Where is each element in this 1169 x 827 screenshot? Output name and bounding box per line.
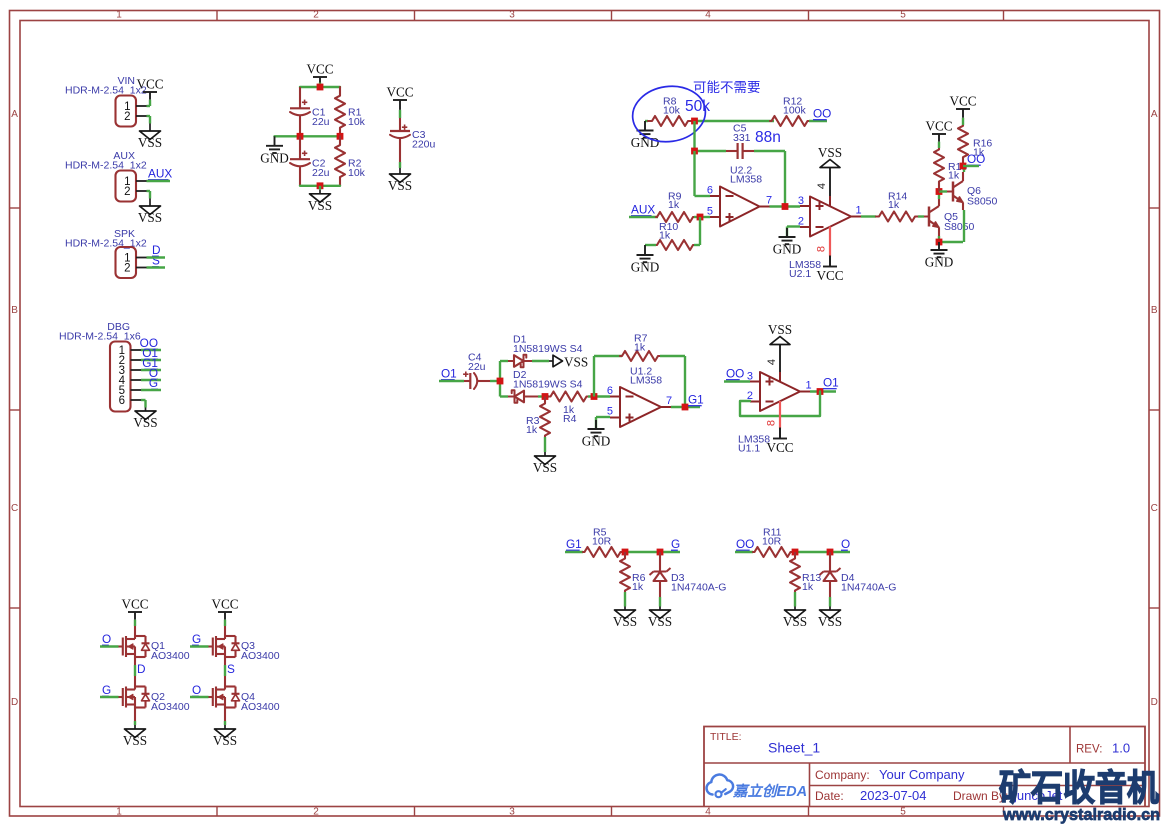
power VCC below U2.1 — [816, 256, 843, 284]
power VCC at VIN pin 1 — [136, 77, 163, 107]
wire U1.2 pin 5 to GND — [596, 417, 610, 429]
title block — [704, 727, 1145, 807]
power VSS above U2.1 — [818, 145, 842, 168]
power VCC above C1 R1 rail — [306, 62, 333, 88]
wire Q5 collector — [938, 192, 940, 200]
wire O to Q1 gate — [100, 645, 119, 647]
junction D3 top — [657, 549, 664, 556]
power VCC above R15 — [925, 119, 952, 149]
svg-text:AO3400: AO3400 — [151, 701, 190, 713]
svg-text:22u: 22u — [468, 361, 486, 373]
net label O — [192, 683, 201, 697]
power VSS at VIN pin 2 — [138, 116, 162, 150]
svg-text:G: G — [192, 632, 201, 646]
svg-text:Your Company: Your Company — [879, 767, 965, 782]
svg-text:5: 5 — [900, 10, 906, 21]
wire Q5 collector to Q6 base — [939, 190, 953, 192]
connector DBG (HDR-M-2.54_1x6) — [59, 321, 141, 412]
net label G — [671, 537, 680, 551]
net label AUX at R9 — [631, 203, 655, 217]
capacitor C2 22u — [290, 136, 330, 186]
svg-text:TITLE:: TITLE: — [710, 731, 742, 743]
svg-text:G1: G1 — [688, 393, 704, 407]
svg-text:4: 4 — [705, 10, 711, 21]
svg-text:1: 1 — [856, 205, 862, 217]
op-amp U1.1 LM358 — [738, 371, 812, 455]
svg-text:GND: GND — [631, 135, 660, 150]
resistor R8 10k — [648, 96, 692, 127]
wire C4 to diode branch — [490, 361, 500, 397]
connector SPK (HDR-M-2.54_1x2) — [65, 228, 147, 278]
svg-text:HDR-M-2.54_1x2: HDR-M-2.54_1x2 — [65, 160, 147, 172]
svg-text:1N4740A-G: 1N4740A-G — [671, 582, 726, 594]
power VSS at AUX pin 2 — [138, 191, 162, 225]
power VSS below C2 R2 rail — [308, 186, 332, 213]
wire DBG pin 3 — [141, 369, 161, 371]
svg-text:1k: 1k — [668, 199, 680, 211]
svg-text:VSS: VSS — [613, 614, 637, 629]
svg-text:4: 4 — [705, 807, 711, 818]
annotation text 可能不需要 — [693, 80, 761, 95]
svg-text:VSS: VSS — [818, 614, 842, 629]
power VSS below D4 — [818, 603, 842, 629]
wire O to Q4 gate — [190, 696, 209, 698]
svg-text:1N4740A-G: 1N4740A-G — [841, 582, 896, 594]
svg-text:S8050: S8050 — [944, 221, 975, 233]
net label G at DBG pin 5 — [149, 376, 158, 390]
wire VCC top rail — [300, 86, 340, 88]
svg-text:A: A — [1151, 109, 1158, 120]
svg-text:A: A — [11, 109, 18, 120]
wire Q6 collector — [963, 166, 965, 172]
svg-text:O: O — [102, 632, 111, 646]
svg-text:O: O — [192, 683, 201, 697]
svg-text:22u: 22u — [312, 167, 330, 179]
wire feedback up to R7 — [594, 356, 622, 397]
svg-text:可能不需要: 可能不需要 — [693, 80, 761, 95]
junction U1.1 output — [817, 388, 824, 395]
junction emitters — [936, 239, 943, 246]
svg-text:C: C — [11, 503, 18, 514]
svg-text:1k: 1k — [802, 581, 814, 593]
net label O1 at DBG pin 2 — [142, 346, 158, 360]
svg-text:VSS: VSS — [133, 415, 157, 430]
svg-text:G: G — [149, 376, 158, 390]
power VCC above R16 — [949, 94, 976, 126]
wire OO stub — [963, 165, 979, 167]
capacitor C5 331 / 88n — [726, 123, 754, 160]
svg-text:1N5819WS S4: 1N5819WS S4 — [513, 343, 583, 355]
power VSS above U1.1 — [768, 322, 792, 345]
svg-text:6: 6 — [607, 385, 613, 397]
ground GND left of R8 — [631, 121, 660, 150]
svg-text:7: 7 — [666, 395, 672, 407]
transistor Q6 S8050 — [953, 172, 998, 210]
wire G1 to R5 — [565, 551, 583, 553]
wire C5 branch left — [695, 150, 727, 152]
svg-text:1k: 1k — [526, 424, 538, 436]
wire R8 branch down to U2.2 pin 6 — [695, 151, 711, 196]
svg-text:GND: GND — [582, 434, 611, 449]
svg-text:S: S — [152, 254, 160, 268]
net label G1 at DBG pin 3 — [142, 356, 158, 370]
wire Q4 source down — [224, 708, 226, 722]
diode D2 1N5819WS — [500, 369, 583, 403]
power VCC above Q3 — [211, 597, 238, 627]
svg-text:VSS: VSS — [564, 355, 588, 370]
svg-text:3: 3 — [509, 807, 515, 818]
svg-text:50k: 50k — [685, 98, 710, 115]
svg-text:2: 2 — [124, 263, 130, 275]
wire VCC to Q3 drain — [224, 626, 226, 636]
capacitor C1 22u — [290, 87, 330, 136]
svg-text:www.crystalradio.cn: www.crystalradio.cn — [1002, 805, 1160, 824]
svg-text:REV:: REV: — [1076, 744, 1102, 756]
junction D4 top — [827, 549, 834, 556]
wire D3 to VSS — [659, 597, 661, 603]
svg-text:嘉立创EDA: 嘉立创EDA — [732, 783, 807, 800]
svg-text:LM358: LM358 — [630, 375, 662, 387]
wire R8 to R12 — [692, 120, 774, 122]
svg-text:VSS: VSS — [138, 210, 162, 225]
connector AUX (HDR-M-2.54_1x2) — [65, 150, 150, 202]
svg-text:1k: 1k — [659, 230, 671, 242]
wire DBG pin 6 to VSS — [141, 400, 146, 404]
svg-text:AUX: AUX — [148, 167, 172, 181]
svg-text:6: 6 — [707, 185, 713, 197]
svg-text:10k: 10k — [663, 105, 681, 117]
transistor Q5 S8050 — [929, 199, 975, 236]
svg-text:VSS: VSS — [308, 198, 332, 213]
wire R7 to output — [660, 356, 685, 407]
svg-text:B: B — [11, 305, 18, 316]
svg-text:10R: 10R — [762, 536, 782, 548]
svg-text:10R: 10R — [592, 536, 612, 548]
svg-text:矿石收音机: 矿石收音机 — [999, 767, 1159, 808]
zener diode D3 1N4740A-G — [650, 552, 727, 597]
power VCC below U1.1 — [766, 428, 793, 456]
net label S — [152, 254, 160, 268]
svg-text:100k: 100k — [783, 105, 807, 117]
op-amp U2.1 pin 4 to VSS — [816, 168, 830, 207]
svg-text:D: D — [11, 697, 18, 708]
power VSS below D3 — [648, 603, 672, 629]
junction R6 top — [622, 549, 629, 556]
op-amp U1.1 pin 8 to VCC — [766, 401, 781, 439]
ground GND at U2.1 pin 2 — [773, 228, 802, 257]
svg-text:7: 7 — [766, 195, 772, 207]
wire R14 to Q5 base — [918, 215, 929, 217]
svg-text:2023-07-04: 2023-07-04 — [860, 788, 927, 803]
diode D1 1N5819WS — [500, 334, 583, 368]
svg-text:2: 2 — [313, 10, 319, 21]
wire U1.1 feedback — [740, 392, 820, 417]
svg-text:1k: 1k — [634, 342, 646, 354]
ground GND below R10 — [631, 245, 660, 275]
junction R13 top — [792, 549, 799, 556]
svg-text:VCC: VCC — [211, 597, 238, 612]
svg-text:GND: GND — [925, 255, 954, 270]
ground GND below Q5 — [925, 242, 954, 270]
power VSS below C3 — [388, 162, 412, 193]
wire D4 to VSS — [829, 597, 831, 603]
svg-text:D: D — [1151, 697, 1158, 708]
wire D2 to junction — [538, 395, 549, 397]
wire SPK pin1 — [147, 256, 166, 258]
svg-text:3: 3 — [747, 371, 753, 383]
wire mid rail to GND — [275, 135, 341, 137]
resistor R14 1k — [876, 191, 918, 222]
junction R4 R7 branch — [591, 393, 598, 400]
junction Q6 collector OO — [960, 163, 967, 170]
svg-text:Date:: Date: — [815, 789, 844, 803]
junction R9 R10 — [697, 214, 704, 221]
power VCC above Q1 — [121, 597, 148, 627]
svg-text:2: 2 — [313, 807, 319, 818]
net label G1 — [566, 537, 582, 551]
resistor R15 1k — [934, 148, 967, 192]
junction C5 branch — [691, 148, 698, 155]
svg-text:R4: R4 — [563, 413, 577, 425]
svg-text:5: 5 — [707, 206, 713, 218]
net label OO — [736, 537, 754, 551]
resistor R6 1k — [620, 552, 646, 593]
svg-text:VCC: VCC — [766, 440, 793, 455]
wire DBG pin 4 — [141, 379, 161, 381]
wire U1.2 output — [671, 406, 700, 408]
capacitor C3 220u — [390, 118, 436, 162]
power VSS below R3 — [533, 448, 557, 475]
wire DBG pin 1 — [141, 349, 161, 351]
mosfet Q3 AO3400 — [209, 636, 280, 662]
wire SPK pin2 — [147, 266, 166, 268]
wire VCC to Q1 drain — [134, 626, 136, 636]
svg-text:1k: 1k — [888, 199, 900, 211]
svg-text:S: S — [227, 662, 235, 676]
power VCC above C3 — [386, 85, 413, 119]
svg-text:U1.1: U1.1 — [738, 443, 760, 455]
resistor R4 1k — [549, 392, 588, 426]
wire R10 left to GND — [645, 244, 656, 246]
svg-text:AO3400: AO3400 — [241, 701, 280, 713]
wire R11 to junctions — [792, 551, 850, 553]
power VSS below Q2 — [123, 721, 147, 748]
connector VIN (HDR-M-2.54_1x2) — [65, 75, 150, 127]
op-amp U1.1 pin 4 to VSS — [766, 345, 780, 383]
svg-text:O: O — [841, 537, 850, 551]
wire R4 to U1.2 pin 6 — [588, 395, 610, 397]
svg-text:6: 6 — [119, 395, 125, 407]
svg-text:Company:: Company: — [815, 768, 870, 782]
junction on VCC rail — [317, 84, 324, 91]
wire OO to U1.1 pin 3 — [724, 380, 750, 382]
wire R6 to VSS — [624, 592, 626, 603]
svg-text:OO: OO — [813, 107, 831, 121]
wire AUX to R9 — [629, 216, 658, 218]
svg-text:8: 8 — [766, 420, 778, 426]
ground GND at mid rail — [260, 136, 289, 165]
mosfet Q2 AO3400 — [119, 687, 190, 714]
op-amp U1.2 LM358 — [607, 366, 672, 428]
wire R10 right up to junction — [694, 217, 700, 245]
watermark 矿石收音机 — [999, 767, 1159, 808]
wire U2.1 pin 2 to GND — [787, 227, 800, 238]
net label G — [102, 683, 111, 697]
net label OO at DBG pin 1 — [140, 336, 158, 350]
svg-text:D: D — [137, 662, 146, 676]
svg-text:VSS: VSS — [138, 135, 162, 150]
op-amp U2.2 LM358 — [707, 165, 772, 227]
wire R9 to U2.2 pin 5 — [694, 216, 710, 218]
svg-text:G1: G1 — [566, 537, 582, 551]
svg-text:2: 2 — [124, 111, 130, 123]
resistor R10 1k — [656, 221, 694, 250]
svg-text:Sheet_1: Sheet_1 — [768, 740, 820, 756]
capacitor C4 22u — [463, 352, 490, 390]
svg-text:8: 8 — [816, 246, 828, 252]
junction U2.2 output / C5 — [782, 203, 789, 210]
svg-text:HDR-M-2.54_1x6: HDR-M-2.54_1x6 — [59, 331, 141, 343]
wire C5 to output net — [754, 151, 785, 207]
wire U1.1 output — [810, 390, 836, 392]
svg-text:22u: 22u — [312, 116, 330, 128]
svg-text:5: 5 — [607, 406, 613, 418]
svg-text:4: 4 — [766, 359, 778, 365]
wire bottom rail — [300, 185, 340, 187]
svg-text:VSS: VSS — [213, 733, 237, 748]
svg-text:AO3400: AO3400 — [151, 650, 190, 662]
power VSS below R13 — [783, 603, 807, 629]
svg-text:5: 5 — [900, 807, 906, 818]
power VSS below Q4 — [213, 721, 237, 748]
watermark www.crystalradio.cn — [1002, 805, 1160, 824]
resistor R11 10R — [753, 527, 792, 558]
power VSS right of D1 — [549, 355, 588, 370]
annotation ellipse around R8 — [629, 82, 709, 147]
wire R5 to junctions — [622, 551, 680, 553]
net label O1 at C4 — [441, 367, 457, 381]
svg-text:GND: GND — [260, 150, 289, 165]
junction R1 mid rail — [337, 133, 344, 140]
svg-text:VSS: VSS — [783, 614, 807, 629]
wire G to Q2 gate — [100, 696, 119, 698]
svg-text:10k: 10k — [348, 116, 366, 128]
net label D — [137, 662, 146, 676]
svg-text:3: 3 — [798, 195, 804, 207]
wire U2.2 output — [770, 205, 801, 207]
svg-text:AUX: AUX — [631, 203, 655, 217]
svg-text:S8050: S8050 — [967, 196, 998, 208]
svg-text:OO: OO — [967, 152, 985, 166]
ground GND at U1.2 pin 5 — [582, 420, 611, 449]
svg-text:VCC: VCC — [925, 119, 952, 134]
resistor R13 1k — [790, 552, 821, 593]
svg-text:VCC: VCC — [121, 597, 148, 612]
wire U2.1 output to R14 — [861, 215, 876, 217]
wire Q3 source to Q4 drain — [224, 657, 226, 687]
svg-text:O1: O1 — [823, 376, 839, 390]
junction bottom rail — [317, 182, 324, 189]
mosfet Q4 AO3400 — [209, 687, 280, 714]
svg-text:3: 3 — [509, 10, 515, 21]
wire OO to R11 — [735, 551, 753, 553]
net label OO at Q6 — [967, 152, 985, 166]
mosfet Q1 AO3400 — [119, 636, 190, 662]
svg-text:B: B — [1151, 305, 1158, 316]
resistor R7 1k — [620, 333, 660, 362]
wire Q1 source to Q2 drain — [134, 657, 136, 687]
junction R8 right — [691, 118, 698, 125]
svg-text:1N5819WS S4: 1N5819WS S4 — [513, 379, 583, 391]
svg-text:VSS: VSS — [533, 460, 557, 475]
svg-text:AO3400: AO3400 — [241, 650, 280, 662]
svg-text:VCC: VCC — [386, 85, 413, 100]
net label G — [192, 632, 201, 646]
junction D2 R3 R4 — [542, 393, 549, 400]
svg-text:1k: 1k — [948, 170, 960, 182]
op-amp U2.1 pin 8 to VCC — [816, 227, 831, 267]
net label O — [841, 537, 850, 551]
svg-text:1: 1 — [116, 10, 122, 21]
wire AUX pin1 — [147, 180, 171, 182]
svg-text:U2.1: U2.1 — [789, 268, 811, 280]
svg-text:LM358: LM358 — [730, 174, 762, 186]
svg-text:VSS: VSS — [388, 178, 412, 193]
svg-text:GND: GND — [631, 260, 660, 275]
svg-text:VSS: VSS — [123, 733, 147, 748]
op-amp U2.1 LM358 — [789, 195, 862, 280]
svg-text:VCC: VCC — [816, 268, 843, 283]
svg-text:1: 1 — [116, 807, 122, 818]
svg-text:4: 4 — [816, 183, 828, 189]
resistor R3 1k — [526, 397, 550, 437]
svg-text:G: G — [102, 683, 111, 697]
wire Q5 Q6 emitters — [939, 241, 963, 243]
net label D — [152, 243, 161, 257]
svg-text:VCC: VCC — [306, 62, 333, 77]
svg-text:G: G — [671, 537, 680, 551]
svg-text:VSS: VSS — [768, 322, 792, 337]
resistor R12 100k — [770, 96, 809, 127]
wire DBG pin 2 — [141, 359, 161, 361]
annotation text 50k — [685, 98, 710, 115]
net label AUX — [148, 167, 172, 181]
junction C1 mid rail — [297, 133, 304, 140]
junction C4 branch — [497, 378, 504, 385]
svg-text:331: 331 — [733, 132, 751, 144]
wire R13 to VSS — [794, 592, 796, 603]
wire R8 junction down to C5 branch — [693, 121, 695, 151]
net label O at DBG pin 4 — [149, 366, 158, 380]
svg-text:OO: OO — [726, 367, 744, 381]
svg-text:220u: 220u — [412, 139, 436, 151]
svg-text:OO: OO — [736, 537, 754, 551]
svg-text:O1: O1 — [441, 367, 457, 381]
resistor R16 1k — [958, 125, 992, 166]
svg-text:1k: 1k — [632, 581, 644, 593]
svg-text:10k: 10k — [348, 167, 366, 179]
wire R3 to VSS — [544, 437, 546, 448]
svg-text:1: 1 — [806, 380, 812, 392]
svg-text:1.0: 1.0 — [1112, 741, 1130, 756]
resistor R2 10k — [335, 136, 366, 185]
svg-text:HDR-M-2.54_1x2: HDR-M-2.54_1x2 — [65, 85, 147, 97]
net label S — [227, 662, 235, 676]
svg-text:VSS: VSS — [818, 145, 842, 160]
svg-text:C: C — [1151, 503, 1158, 514]
wire D1 to VSS flag — [532, 360, 549, 362]
net label O — [102, 632, 111, 646]
